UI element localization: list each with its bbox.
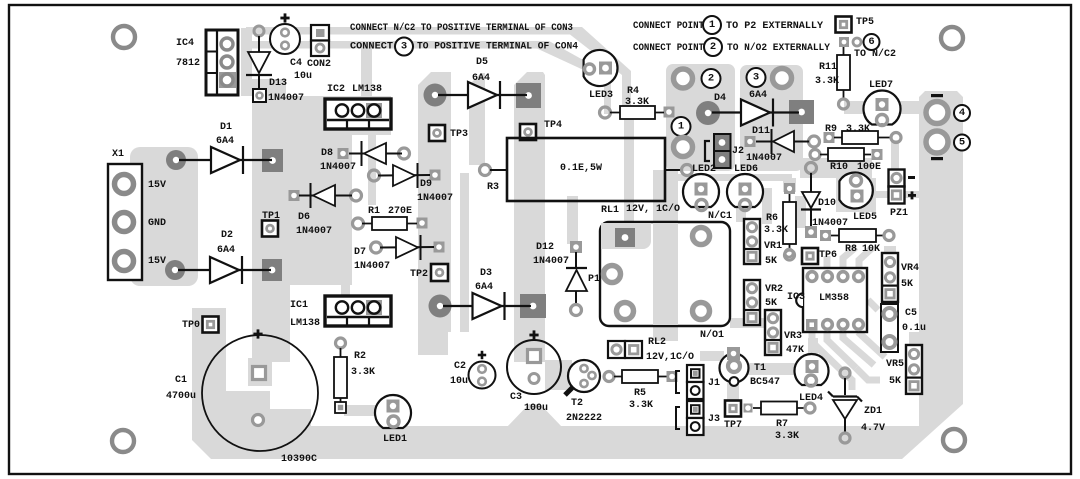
- label 3.3K of R9: [846, 124, 870, 135]
- svg-text:2: 2: [710, 41, 716, 53]
- label VR5: [886, 359, 904, 370]
- node 6 callout: [864, 34, 880, 50]
- svg-text:ZD1: ZD1: [864, 406, 882, 417]
- plus mark of C4: [280, 13, 289, 22]
- label R7: [776, 419, 788, 430]
- svg-text:10u: 10u: [294, 71, 312, 82]
- diode D10 1N4007: [801, 163, 821, 239]
- label 1N4007 of D6: [296, 226, 332, 237]
- label 10u of C4: [294, 71, 312, 82]
- label 1N4007 of D11: [746, 153, 782, 164]
- label R6: [766, 213, 778, 224]
- preset VR5 5K: [906, 345, 922, 394]
- svg-text:T1: T1: [754, 363, 766, 374]
- output pad ring 5: [926, 131, 948, 153]
- label 3.3K of R2: [351, 367, 375, 378]
- svg-text:TP3: TP3: [450, 129, 468, 140]
- svg-text:D3: D3: [480, 268, 492, 279]
- label 5K of VR2: [765, 298, 777, 309]
- svg-text:LM138: LM138: [352, 84, 382, 95]
- label 1N4007 of D8: [320, 162, 356, 173]
- regulator IC1 LM138: [325, 296, 391, 326]
- label LED6: [734, 164, 758, 175]
- svg-text:TO P2 EXTERNALLY: TO P2 EXTERNALLY: [726, 21, 823, 32]
- note line 4a: [633, 43, 704, 54]
- svg-text:5K: 5K: [765, 256, 777, 267]
- mounting hole top-right: [941, 27, 963, 49]
- relay RL1 12V 1C/O: [600, 222, 730, 326]
- label J3: [708, 414, 720, 425]
- label 15V pin3: [148, 256, 166, 267]
- node pad ring 2-left: [674, 69, 693, 88]
- label C4: [290, 58, 302, 69]
- label LED3: [589, 90, 613, 101]
- minus mark below pad 5: [931, 157, 943, 160]
- label 6A4 of D2: [217, 245, 235, 256]
- label 6A4 of D1: [216, 136, 234, 147]
- svg-text:RL1: RL1: [601, 205, 619, 216]
- capacitor C3 100u: [507, 340, 561, 394]
- note line 1: [350, 22, 573, 34]
- svg-text:6A4: 6A4: [475, 282, 493, 293]
- svg-text:6A4: 6A4: [216, 136, 234, 147]
- svg-text:LM358: LM358: [819, 293, 849, 304]
- svg-text:CON2: CON2: [307, 59, 331, 70]
- label D10: [818, 198, 836, 209]
- svg-text:3.3K: 3.3K: [629, 400, 653, 411]
- svg-text:10390C: 10390C: [281, 454, 317, 465]
- svg-text:N/O1: N/O1: [700, 329, 724, 341]
- svg-text:R4: R4: [627, 86, 639, 97]
- svg-text:R5: R5: [634, 388, 646, 399]
- svg-text:1: 1: [709, 19, 715, 31]
- jumper J1: [676, 365, 704, 399]
- LED4: [794, 354, 828, 386]
- label 0.1u of C5: [902, 323, 926, 334]
- label TP1: [262, 211, 280, 222]
- svg-text:15V: 15V: [148, 256, 166, 267]
- label 3.3K of R7: [775, 431, 799, 442]
- svg-text:10u: 10u: [450, 376, 468, 387]
- svg-text:3.3K: 3.3K: [625, 97, 649, 108]
- svg-text:TP4: TP4: [544, 120, 562, 131]
- svg-text:N/C1: N/C1: [708, 210, 732, 222]
- zener diode ZD1 4.7V: [828, 368, 862, 443]
- svg-text:TP0: TP0: [182, 320, 200, 331]
- label R11: [819, 62, 837, 73]
- label 100u of C3: [524, 403, 548, 414]
- svg-text:TP7: TP7: [724, 420, 742, 431]
- svg-text:R1: R1: [368, 206, 380, 217]
- label C3: [510, 392, 522, 403]
- svg-text:J2: J2: [732, 146, 744, 157]
- label IC1: [290, 300, 308, 311]
- label LM358 of IC3: [819, 293, 849, 304]
- svg-text:3.3K: 3.3K: [775, 431, 799, 442]
- svg-text:2: 2: [708, 73, 714, 85]
- regulator IC2 LM138: [325, 99, 391, 129]
- label LED7: [869, 80, 893, 91]
- svg-text:T2: T2: [571, 398, 583, 409]
- svg-text:D8: D8: [321, 148, 333, 159]
- diode D9 1N4007: [369, 163, 441, 188]
- pad left of TP6: [785, 249, 793, 257]
- diode D3 6A4: [429, 292, 547, 320]
- label TP3: [450, 129, 468, 140]
- svg-text:3: 3: [401, 41, 407, 53]
- svg-text:3.3K: 3.3K: [764, 225, 788, 236]
- label D2: [221, 230, 233, 241]
- svg-text:TO POSITIVE TERMINAL OF CON4: TO POSITIVE TERMINAL OF CON4: [417, 42, 578, 53]
- svg-text:5K: 5K: [889, 376, 901, 387]
- jumper J3: [676, 401, 704, 435]
- label C5: [905, 308, 917, 319]
- label 10u of C2: [450, 376, 468, 387]
- svg-text:10K: 10K: [862, 244, 880, 255]
- resistor R11 3.3K: [837, 47, 850, 109]
- svg-text:IC4: IC4: [176, 38, 194, 49]
- label 4700u of C1: [166, 391, 196, 402]
- mounting hole top-left: [113, 26, 135, 48]
- label 47K of VR3: [786, 345, 804, 356]
- note line 3b: [726, 21, 823, 32]
- plus mark of C3: [529, 330, 538, 339]
- label IC4: [176, 38, 194, 49]
- svg-text:R10: R10: [830, 162, 848, 173]
- svg-text:4700u: 4700u: [166, 391, 196, 402]
- svg-text:6A4: 6A4: [217, 245, 235, 256]
- svg-text:C2: C2: [454, 361, 466, 372]
- svg-text:BC547: BC547: [750, 377, 780, 388]
- diode D4 6A4: [696, 99, 814, 127]
- label LED2: [692, 164, 716, 175]
- svg-text:1N4007: 1N4007: [268, 93, 304, 104]
- label LM138 of IC2: [352, 84, 382, 95]
- LED6: [727, 174, 763, 211]
- svg-text:0.1E,5W: 0.1E,5W: [560, 163, 602, 174]
- node 3 callout in note: [395, 38, 413, 56]
- label 1N4007 of D13: [268, 93, 304, 104]
- plus mark of C1: [253, 329, 262, 338]
- svg-text:12V,1C/O: 12V,1C/O: [646, 351, 694, 363]
- node pad ring 1-lower: [674, 138, 693, 157]
- resistor R3 0.1E 5W: [480, 138, 693, 201]
- label VR1: [764, 241, 782, 252]
- node 2 callout: [702, 69, 721, 88]
- label R10: [830, 162, 848, 173]
- svg-text:LED5: LED5: [853, 212, 877, 223]
- svg-text:LED4: LED4: [799, 393, 823, 404]
- label contact N/C1: [708, 210, 732, 222]
- label D12: [536, 242, 554, 253]
- test point TP2: [431, 264, 448, 281]
- svg-text:CONNECT N/C2 TO POSITIVE TERMI: CONNECT N/C2 TO POSITIVE TERMINAL OF CON…: [350, 22, 573, 34]
- connector X1: [108, 164, 142, 280]
- capacitor C5 0.1u: [881, 304, 898, 352]
- label 12V 1C/O of RL1: [626, 203, 680, 215]
- minus mark above pad 4: [931, 94, 943, 97]
- label RL1: [601, 205, 619, 216]
- label node P1: [588, 274, 600, 285]
- node pad ring 3-right: [773, 69, 792, 88]
- svg-text:D5: D5: [476, 57, 488, 68]
- test point TP0: [203, 317, 219, 333]
- note line 2a: [350, 42, 393, 53]
- svg-text:6A4: 6A4: [749, 90, 767, 101]
- svg-text:5K: 5K: [765, 298, 777, 309]
- test point TP1: [262, 221, 278, 237]
- svg-text:R6: R6: [766, 213, 778, 224]
- svg-text:R7: R7: [776, 419, 788, 430]
- label R9: [825, 124, 837, 135]
- svg-text:TO N/C2: TO N/C2: [854, 48, 896, 60]
- svg-text:5K: 5K: [901, 279, 913, 290]
- note line 2b: [417, 42, 578, 53]
- label 6A4 of D4: [749, 90, 767, 101]
- svg-text:PZ1: PZ1: [890, 208, 908, 219]
- label TP6: [819, 250, 837, 261]
- note line 3a: [633, 21, 704, 32]
- test point TP6: [802, 248, 818, 264]
- svg-text:3.3K: 3.3K: [846, 124, 870, 135]
- resistor R5 3.3K: [604, 370, 678, 383]
- label 5K of VR1: [765, 256, 777, 267]
- svg-text:3.3K: 3.3K: [815, 76, 839, 87]
- svg-text:4: 4: [959, 107, 965, 119]
- svg-text:7812: 7812: [176, 58, 200, 69]
- label IC2: [327, 84, 345, 95]
- label LM138 of IC1: [290, 318, 320, 329]
- point 2 callout in note: [704, 38, 722, 56]
- label C1: [175, 375, 187, 386]
- test point TP7: [725, 401, 741, 417]
- label D4: [714, 93, 726, 104]
- svg-text:D6: D6: [298, 212, 310, 223]
- label X1: [112, 149, 124, 160]
- svg-text:15V: 15V: [148, 180, 166, 191]
- svg-text:R11: R11: [819, 62, 837, 73]
- svg-text:R2: R2: [354, 351, 366, 362]
- label 2N2222 of T2: [566, 413, 602, 424]
- diode D11 1N4007: [745, 129, 820, 154]
- LED5: [839, 173, 872, 209]
- label VR3: [784, 331, 802, 342]
- label 4.7V of ZD1: [861, 423, 885, 434]
- label RL2: [648, 337, 666, 348]
- svg-text:D10: D10: [818, 198, 836, 209]
- svg-text:100u: 100u: [524, 403, 548, 414]
- label 5K of VR4: [901, 279, 913, 290]
- label R8: [845, 244, 857, 255]
- svg-text:47K: 47K: [786, 345, 804, 356]
- preset VR4 5K: [882, 253, 898, 302]
- preset VR1 5K: [744, 219, 760, 264]
- label T1: [754, 363, 766, 374]
- label TP0: [182, 320, 200, 331]
- label contact N/O1: [700, 329, 724, 341]
- diode D7 1N4007: [371, 235, 445, 260]
- capacitor C1 4700u: [202, 335, 318, 451]
- op-amp IC3 LM358: [796, 268, 867, 332]
- label TP2: [410, 269, 428, 280]
- svg-text:D2: D2: [221, 230, 233, 241]
- svg-text:IC1: IC1: [290, 300, 308, 311]
- label R1: [368, 206, 380, 217]
- node 5 callout: [954, 135, 970, 151]
- svg-text:TP6: TP6: [819, 250, 837, 261]
- label TP4: [544, 120, 562, 131]
- wire trace network (copper pour, light grey): [130, 27, 963, 459]
- svg-text:IC2: IC2: [327, 84, 345, 95]
- svg-text:270E: 270E: [388, 206, 412, 217]
- mounting hole bottom-left: [112, 430, 134, 452]
- diode D6 1N4007: [289, 183, 362, 208]
- svg-text:X1: X1: [112, 149, 124, 160]
- label D6: [298, 212, 310, 223]
- diode D13 1N4007: [246, 26, 272, 102]
- svg-text:C3: C3: [510, 392, 522, 403]
- svg-text:TO N/O2 EXTERNALLY: TO N/O2 EXTERNALLY: [727, 42, 830, 54]
- test point TP3: [429, 125, 445, 141]
- svg-text:D12: D12: [536, 242, 554, 253]
- resistor R2 3.3K: [334, 338, 347, 413]
- svg-text:LED7: LED7: [869, 80, 893, 91]
- node 3 callout: [747, 68, 766, 87]
- svg-text:RL2: RL2: [648, 337, 666, 348]
- svg-text:GND: GND: [148, 218, 166, 229]
- label D3: [480, 268, 492, 279]
- relay coil connector RL2: [608, 341, 642, 358]
- capacitor C4 10u: [270, 24, 300, 54]
- pad ring beside 6: [853, 38, 861, 46]
- svg-text:100E: 100E: [857, 162, 881, 173]
- svg-text:3: 3: [753, 72, 759, 84]
- svg-text:1N4007: 1N4007: [417, 193, 453, 204]
- svg-text:CONNECT POINT: CONNECT POINT: [633, 21, 704, 32]
- label J2: [732, 146, 744, 157]
- point 1 callout in note: [703, 16, 721, 34]
- node 4 callout: [954, 105, 970, 121]
- jumper J2: [705, 134, 731, 168]
- label GND pin2: [148, 218, 166, 229]
- svg-text:1N4007: 1N4007: [533, 256, 569, 267]
- resistor R9 3.3K: [824, 131, 902, 144]
- label 1N4007 of D10: [812, 218, 848, 229]
- capacitor C2 10u: [469, 362, 496, 389]
- svg-text:LED6: LED6: [734, 164, 758, 175]
- plus mark of PZ1: [908, 191, 916, 199]
- resistor R8 10K: [820, 229, 894, 242]
- svg-text:1N4007: 1N4007: [296, 226, 332, 237]
- svg-text:4.7V: 4.7V: [861, 423, 885, 434]
- label 6A4 of D3: [475, 282, 493, 293]
- svg-text:C4: C4: [290, 58, 302, 69]
- label TP7: [724, 420, 742, 431]
- svg-text:TP1: TP1: [262, 211, 280, 222]
- label D9: [420, 179, 432, 190]
- label R3: [487, 182, 499, 193]
- svg-text:D11: D11: [752, 126, 770, 137]
- svg-text:VR3: VR3: [784, 331, 802, 342]
- label 6A4 of D5: [472, 73, 490, 84]
- label LED1: [383, 434, 407, 445]
- label D5: [476, 57, 488, 68]
- label R5: [634, 388, 646, 399]
- node 1 callout: [672, 117, 691, 136]
- label CON2: [307, 59, 331, 70]
- label 3.3K of R5: [629, 400, 653, 411]
- connector CON2: [311, 25, 329, 56]
- svg-text:D1: D1: [220, 122, 232, 133]
- svg-text:R3: R3: [487, 182, 499, 193]
- label VR4: [901, 263, 919, 274]
- svg-text:P1: P1: [588, 274, 600, 285]
- svg-text:R8: R8: [845, 244, 857, 255]
- label TO N/C2: [854, 48, 896, 60]
- test point TP4: [520, 124, 536, 140]
- label C2: [454, 361, 466, 372]
- svg-text:R9: R9: [825, 124, 837, 135]
- label R4: [627, 86, 639, 97]
- svg-text:1N4007: 1N4007: [354, 261, 390, 272]
- svg-text:IC3: IC3: [787, 292, 805, 303]
- svg-text:1: 1: [678, 121, 684, 133]
- svg-text:C5: C5: [905, 308, 917, 319]
- label 12V 1C/O of RL2: [646, 351, 694, 363]
- label 10K of R8: [862, 244, 880, 255]
- label PZ1: [890, 208, 908, 219]
- label 3.3K of R11: [815, 76, 839, 87]
- svg-text:1N4007: 1N4007: [746, 153, 782, 164]
- LED2: [683, 174, 719, 211]
- svg-text:D4: D4: [714, 93, 726, 104]
- diode D12 1N4007 (node P1): [566, 241, 587, 316]
- svg-text:D7: D7: [354, 247, 366, 258]
- resistor R6 3.3K: [783, 183, 796, 260]
- test point TP5: [836, 17, 852, 33]
- label D7: [354, 247, 366, 258]
- regulator IC4 7812: [206, 30, 238, 95]
- LED3: [584, 50, 618, 86]
- transistor T1 BC547: [720, 347, 749, 386]
- output pad ring 4: [926, 102, 948, 124]
- buzzer connector PZ1: [889, 170, 905, 204]
- svg-text:5: 5: [959, 137, 965, 149]
- diode D1 6A4: [166, 146, 283, 174]
- resistor R10 100E: [810, 148, 883, 161]
- svg-text:TP2: TP2: [410, 269, 428, 280]
- label 3.3K of R4: [625, 97, 649, 108]
- transistor T2 2N2222: [565, 360, 600, 395]
- label 3.3K of R6: [764, 225, 788, 236]
- svg-text:CONNECT: CONNECT: [350, 42, 393, 53]
- label 1N4007 of D12: [533, 256, 569, 267]
- label T2: [571, 398, 583, 409]
- board code 10390C: [281, 454, 317, 465]
- label IC3: [787, 292, 805, 303]
- svg-text:D13: D13: [269, 78, 287, 89]
- label VR2: [765, 284, 783, 295]
- svg-text:LED1: LED1: [383, 434, 407, 445]
- label 1N4007 of D9: [417, 193, 453, 204]
- label 1N4007 of D7: [354, 261, 390, 272]
- label ZD1: [864, 406, 882, 417]
- label 270E of R1: [388, 206, 412, 217]
- resistor R4 3.3K: [600, 106, 675, 119]
- svg-text:VR4: VR4: [901, 263, 919, 274]
- minus mark of PZ1: [908, 176, 915, 179]
- svg-text:J3: J3: [708, 414, 720, 425]
